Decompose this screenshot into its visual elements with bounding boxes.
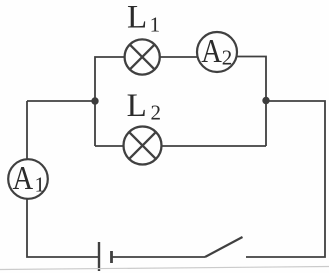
ammeter A1: [8, 159, 48, 199]
svg-text:2: 2: [222, 45, 233, 69]
wire L2 branch right: [161, 145, 266, 147]
scan artifact line bottom: [0, 267, 329, 270]
wire L1 to A2: [160, 56, 198, 58]
svg-text:1: 1: [35, 173, 46, 197]
battery short plate: [110, 251, 113, 263]
wire A1 to bottom-left corner to battery: [27, 198, 99, 257]
node junction dot left: [91, 97, 98, 104]
wire A2 to right corner and down: [237, 57, 266, 147]
battery long plate: [98, 242, 100, 271]
wire battery to switch: [112, 256, 206, 258]
svg-text:1: 1: [150, 13, 161, 37]
label L1: [127, 0, 160, 37]
wire L2 branch left: [95, 145, 124, 147]
svg-text:A: A: [13, 158, 34, 196]
svg-text:L: L: [127, 0, 147, 36]
wire left vertical down to A1: [26, 101, 28, 160]
ammeter A2: [197, 32, 237, 72]
label A2: [201, 32, 232, 70]
svg-text:2: 2: [151, 100, 162, 124]
switch arm (open): [205, 237, 243, 257]
wire left horizontal into junction: [27, 100, 95, 102]
label A1: [13, 158, 46, 196]
lamp L1: [125, 39, 160, 74]
label L2: [127, 88, 161, 124]
lamp L2: [124, 127, 162, 165]
svg-text:A: A: [201, 32, 222, 70]
wire left parallel-branch vertical: [95, 57, 125, 146]
node junction dot right: [262, 97, 269, 104]
wire right side loop: [246, 101, 325, 257]
svg-text:L: L: [127, 88, 147, 124]
